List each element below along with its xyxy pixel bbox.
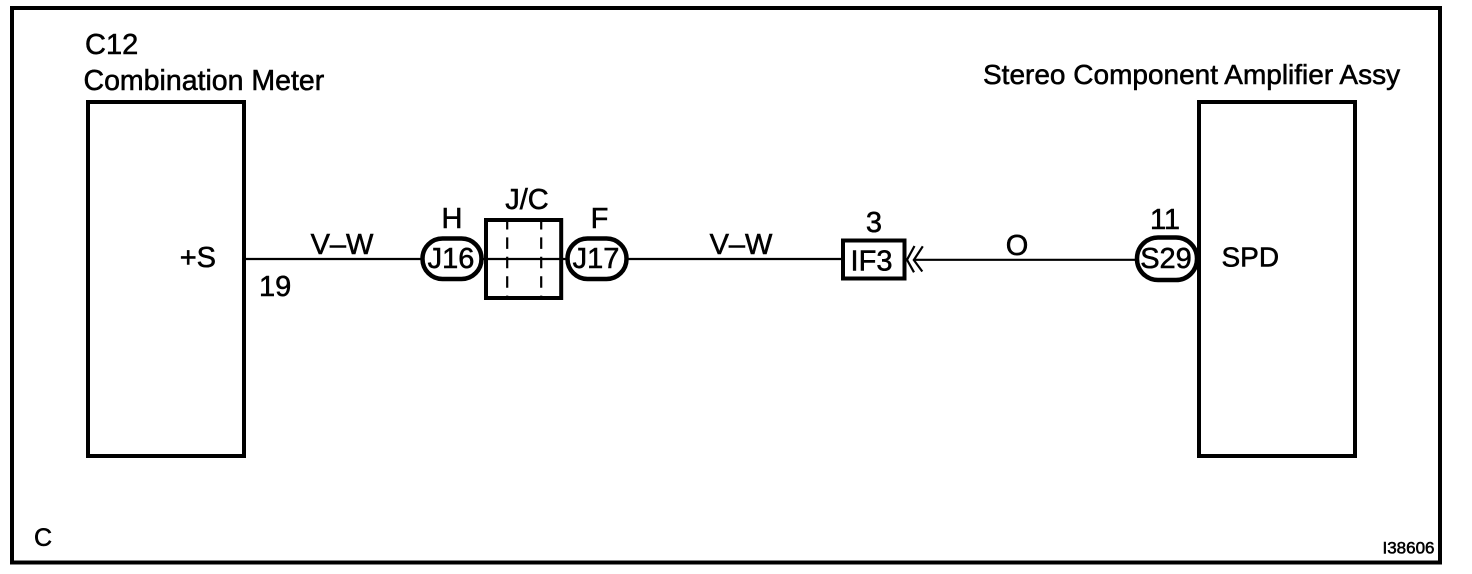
svg-text:C12: C12	[85, 29, 138, 61]
svg-text:J17: J17	[573, 243, 620, 275]
wire O from S29 to IF3	[914, 259, 1140, 261]
svg-text:J/C: J/C	[505, 184, 549, 216]
connector J17	[568, 239, 627, 280]
svg-text:SPD: SPD	[1222, 242, 1280, 273]
J/C internal dashed line 2	[540, 222, 542, 298]
svg-text:19: 19	[259, 271, 291, 303]
chevron arrow into IF3 (outer)	[914, 246, 923, 271]
svg-text:11: 11	[1150, 204, 1180, 236]
junction block J/C box	[486, 220, 561, 298]
chevron arrow into IF3 (inner)	[907, 246, 915, 272]
component Combination Meter box C12	[88, 102, 244, 456]
connector S29	[1137, 238, 1197, 281]
connector IF3 box	[843, 241, 905, 279]
svg-text:V–W: V–W	[710, 229, 773, 261]
svg-text:IF3: IF3	[851, 246, 893, 278]
svg-text:V–W: V–W	[311, 229, 374, 261]
wire V-W from C12 pin 19 through J/C junction to IF3	[246, 258, 843, 260]
svg-text:I38606: I38606	[1383, 539, 1435, 558]
svg-text:F: F	[591, 203, 609, 235]
svg-text:Stereo Component Amplifier Ass: Stereo Component Amplifier Assy	[983, 59, 1400, 90]
svg-text:O: O	[1006, 230, 1029, 262]
svg-text:Combination Meter: Combination Meter	[84, 65, 325, 97]
J/C internal dashed line 1	[506, 222, 508, 298]
svg-text:H: H	[442, 203, 463, 235]
svg-text:C: C	[34, 524, 52, 552]
svg-text:3: 3	[866, 207, 882, 239]
svg-text:J16: J16	[428, 243, 475, 275]
connector J16	[423, 239, 482, 280]
svg-text:+S: +S	[180, 242, 216, 274]
component Stereo Component Amplifier box	[1199, 102, 1355, 456]
svg-text:S29: S29	[1140, 243, 1192, 275]
